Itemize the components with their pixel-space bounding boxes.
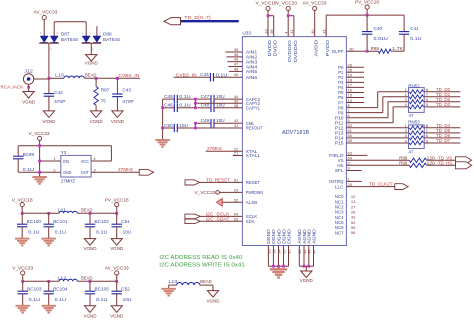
pin 48 AIN5 (left) [234, 66, 258, 74]
svg-text:TD_HS: TD_HS [438, 160, 452, 165]
svg-text:ADV7181B: ADV7181B [282, 130, 310, 136]
svg-text:VGND: VGND [110, 246, 124, 251]
pin 40 AVDD [310, 29, 319, 57]
svg-text:C46: C46 [164, 103, 173, 108]
pin 20 LLC [335, 182, 395, 190]
svg-text:BEAD: BEAD [81, 275, 92, 280]
svg-text:120: 120 [427, 160, 436, 165]
wire P3 stub [346, 81, 364, 83]
pin 11 DVDDIO [289, 29, 298, 62]
pin 62 P12 (right) [335, 123, 353, 131]
ground VGND under R87 [90, 111, 104, 124]
pin 47 AIN4 (left) [234, 62, 258, 70]
svg-text:0.1U: 0.1U [55, 297, 66, 302]
svg-text:51: 51 [234, 177, 239, 182]
svg-text:D88: D88 [103, 31, 112, 36]
pin 42 DGND [286, 229, 291, 266]
net label CVBS_IN (at C44) [176, 73, 197, 78]
svg-text:VGND: VGND [42, 119, 56, 124]
svg-text:BC99: BC99 [23, 152, 35, 157]
power symbol V_VCC33 (oscillator) [29, 131, 50, 177]
svg-text:D87: D87 [61, 31, 70, 36]
svg-text:VGND: VGND [22, 100, 36, 105]
svg-text:DVDDIO: DVDDIO [293, 40, 298, 63]
pin 12 NC0 [335, 194, 356, 199]
svg-text:BAT54S: BAT54S [61, 37, 78, 42]
wire VCC33 rail [23, 280, 117, 282]
ground under DGND [270, 269, 287, 277]
capacitor C47 10U [195, 94, 242, 103]
svg-text:20: 20 [348, 182, 353, 187]
svg-text:C50: C50 [164, 123, 173, 128]
ground VGND under C43 [111, 111, 125, 124]
wire RESET [200, 181, 243, 183]
svg-text:10U: 10U [123, 297, 132, 302]
svg-text:0.01U: 0.01U [374, 36, 388, 41]
svg-text:C44: C44 [200, 72, 209, 77]
svg-text:BC103: BC103 [27, 286, 42, 291]
ground VGND under L13 right [207, 285, 221, 303]
wire AIN3 stub [227, 61, 242, 63]
svg-text:P15: P15 [335, 141, 344, 146]
pin 16 P5 (right) [338, 88, 353, 96]
off-page tag TD_VS [456, 157, 472, 164]
off-page tag TD_RESET [185, 177, 230, 185]
svg-text:V_VCC18: V_VCC18 [256, 0, 277, 5]
svg-text:470P: 470P [122, 99, 133, 104]
ground (earth) under cap bank [155, 140, 169, 147]
svg-text:AV_VCC33: AV_VCC33 [105, 266, 129, 271]
pin 34 DGND [276, 229, 281, 266]
wire P11 to RN52 [346, 107, 408, 123]
wire DVDD branch [267, 14, 274, 36]
svg-text:VGND: VGND [110, 313, 124, 318]
capacitor C44 0.1U (series) [174, 72, 243, 81]
bus TD_D(0..7) [181, 20, 239, 22]
power symbol AV_VCC33 (IC top) [303, 0, 327, 36]
wire P10 to RN52 [346, 102, 408, 118]
wire CAPY2 row [195, 102, 242, 104]
svg-text:0.1U: 0.1U [96, 297, 107, 302]
svg-text:VGND: VGND [85, 60, 99, 65]
pin numbers RN52 left [405, 87, 408, 107]
power symbol AV_VCC33 (top left) [34, 9, 58, 36]
ground VGND under BC105 [84, 306, 98, 319]
wire PWRDWN [219, 191, 242, 193]
svg-text:27MHZ: 27MHZ [61, 179, 76, 184]
svg-text:0.1U: 0.1U [179, 94, 190, 99]
svg-text:TD_CLK27: TD_CLK27 [369, 181, 393, 186]
svg-text:C41: C41 [410, 26, 419, 31]
inductor L12 BEAD [58, 275, 93, 281]
svg-text:10U: 10U [216, 103, 225, 108]
note I2C address text [159, 255, 245, 269]
wire TD_D7 [424, 138, 460, 143]
svg-text:470P: 470P [54, 99, 65, 104]
capacitor BC100 0.1U [17, 213, 42, 238]
pin 52 ALSB (left) [234, 197, 257, 205]
svg-text:RN52: RN52 [408, 83, 420, 88]
wire TD_D3 [424, 102, 460, 107]
wire J12 to node [34, 78, 49, 80]
svg-text:29: 29 [234, 187, 239, 192]
ground VGND under AGND [300, 271, 314, 283]
capacitor C45 0.1U [163, 94, 196, 103]
svg-text:BC102: BC102 [95, 219, 110, 224]
off-page tag I2C_SDAT [185, 217, 230, 224]
node dots cap bank [161, 98, 197, 130]
wire cap-bank left rail [162, 99, 164, 140]
svg-text:V_VCC33: V_VCC33 [195, 190, 216, 195]
pin 36 DVDD [269, 29, 278, 57]
wire AIN2 stub [226, 56, 242, 58]
svg-text:48: 48 [234, 66, 239, 71]
svg-text:SFL: SFL [335, 168, 344, 173]
ground under BC103 [16, 306, 30, 313]
svg-text:RCA JACK: RCA JACK [1, 84, 24, 89]
pin 64 VS [338, 156, 353, 164]
svg-text:TD_D3: TD_D3 [436, 102, 451, 107]
ground VGND under BC102 [84, 239, 98, 252]
pin 54 SCLK (left) [234, 211, 257, 219]
wire XTAL1 stub [233, 155, 243, 157]
pin 46 AIN3 (left) [234, 57, 258, 65]
wire DGND rail [268, 265, 288, 270]
diode D88 BAT54S [81, 31, 120, 54]
pin 41 AGND [302, 229, 307, 266]
capacitor BC103 0.1U [18, 281, 43, 306]
svg-text:R88: R88 [371, 46, 380, 51]
svg-text:C49: C49 [201, 118, 210, 123]
pin 53 SDA (left) [234, 216, 255, 224]
svg-text:DVDDIO: DVDDIO [287, 40, 292, 63]
pin 6 P10 (right) [335, 113, 351, 121]
svg-text:C47: C47 [201, 94, 210, 99]
svg-text:RESET: RESET [246, 180, 261, 185]
wire P7 stub [346, 102, 364, 104]
capacitor BC99 0.1U [13, 146, 35, 173]
wire oscillator EN row [40, 160, 61, 162]
wire ELPF [346, 50, 378, 53]
svg-text:DGND: DGND [286, 229, 291, 244]
svg-text:AVDD: AVDD [314, 39, 319, 56]
svg-text:V_VCC33: V_VCC33 [276, 0, 297, 5]
svg-text:BC105: BC105 [95, 286, 110, 291]
svg-text:U33: U33 [242, 31, 251, 36]
svg-text:VCC: VCC [81, 159, 89, 164]
svg-text:PV_VCC18: PV_VCC18 [105, 197, 129, 202]
wire Y3 VCC pin4 to rail [91, 146, 111, 161]
svg-text:OUT: OUT [81, 170, 90, 175]
off-page tag TD_HS [456, 162, 472, 169]
capacitor C46 0.1U [163, 103, 196, 112]
inductor L11 BEAD [58, 207, 93, 213]
svg-text:XTAL1: XTAL1 [246, 153, 261, 158]
pin 9 SFL [335, 166, 362, 174]
pin 28 NC3 [335, 209, 356, 214]
svg-text:0.1U: 0.1U [96, 230, 107, 235]
pin 35 AIN1 (left) [234, 47, 258, 55]
pin 17 P4 (right) [338, 83, 353, 91]
svg-text:V_VCC33: V_VCC33 [29, 131, 50, 136]
arrow ALSB (to gnd tag) [216, 198, 222, 206]
svg-text:BEAD: BEAD [200, 279, 211, 284]
pin 13 NC1 [335, 199, 356, 204]
svg-text:V_VCC18: V_VCC18 [12, 197, 33, 202]
svg-text:59: 59 [348, 138, 353, 143]
pin numbers Y3 [53, 156, 96, 172]
pin 26 P0 (right) [338, 62, 353, 70]
wire D88 pin2 stub [96, 26, 98, 36]
power symbol PV_VCC18 [105, 197, 129, 213]
svg-text:27MHz: 27MHz [118, 167, 134, 172]
svg-text:AIN5: AIN5 [246, 69, 258, 74]
wire diode top rail [54, 22, 86, 36]
svg-text:CVBS_IN: CVBS_IN [118, 73, 139, 78]
svg-text:TD_D7: TD_D7 [436, 138, 451, 143]
pin 49 AIN6 (left) [234, 72, 258, 80]
ground VGND under C42 [42, 111, 56, 124]
svg-text:10U: 10U [216, 94, 225, 99]
capacitor C51 10U [112, 213, 132, 238]
pin 47 AGND [311, 229, 316, 266]
off-page bus arrow [164, 18, 181, 25]
pin 36 AIN2 (left) [234, 52, 258, 60]
svg-text:41: 41 [234, 123, 239, 128]
pin 23 DVDD [263, 29, 272, 57]
svg-text:56: 56 [351, 230, 356, 235]
inductor L13 BEAD [169, 279, 214, 285]
ground under L13 left [162, 285, 176, 296]
svg-text:AGND: AGND [311, 229, 316, 244]
svg-text:NC7: NC7 [335, 230, 344, 235]
svg-text:Y3: Y3 [61, 150, 67, 155]
wire SDA [200, 220, 242, 222]
svg-text:VGND: VGND [300, 278, 314, 283]
pin 29 PWRDWN (left) [234, 187, 263, 195]
pin 22 XTAL (left) [234, 146, 258, 154]
wire TD_D2 [424, 97, 460, 102]
net label 27MHz (osc out) [118, 167, 134, 172]
svg-text:I2C ADDRESS READ IS 0x40: I2C ADDRESS READ IS 0x40 [159, 255, 243, 261]
oscillator U Y3 27MHZ [61, 150, 91, 183]
pin numbers RN53 left [405, 123, 408, 143]
wire P15 to RN53 [346, 142, 408, 144]
svg-text:36: 36 [269, 29, 274, 34]
pin 44 CAPC2 (left) [234, 94, 261, 102]
IC U33 ADV7181B [242, 31, 346, 246]
svg-text:0.1U: 0.1U [23, 167, 34, 172]
power symbol AV_VCC33 (row2) [105, 266, 129, 282]
capacitor BC104 0.1U [44, 281, 69, 306]
wire cap-bank mid vertical 2 [194, 123, 196, 128]
pin 2 HS [337, 161, 350, 169]
wire TD_D6 [424, 133, 460, 138]
wire P1 stub [346, 71, 364, 73]
wire P5 stub [346, 91, 364, 93]
net label CVBS_IN [118, 73, 139, 78]
wire P6 stub [346, 97, 364, 99]
svg-text:ELPF: ELPF [332, 49, 344, 54]
svg-text:53: 53 [234, 216, 239, 221]
svg-text:R90: R90 [399, 160, 408, 165]
svg-text:TD_D(0..7): TD_D(0..7) [184, 15, 211, 20]
svg-text:AV_VCC33: AV_VCC33 [34, 9, 58, 14]
svg-text:0.1U: 0.1U [28, 230, 39, 235]
wire oscillator gnd row [18, 171, 61, 173]
wire P12 to RN53 [346, 127, 408, 129]
wire cap-bank mid vertical [194, 99, 196, 108]
pin 32 AGND [297, 229, 302, 266]
pin 21 XTAL1 (left) [234, 151, 261, 159]
capacitor C43 470P [112, 78, 134, 111]
ground VGND under C52 [110, 306, 124, 319]
svg-text:BC101: BC101 [53, 219, 68, 224]
pin 4 DVDDIO [284, 31, 293, 63]
wire J12 ground stub [27, 84, 30, 91]
pin 1 INTRQ [329, 177, 361, 185]
wire AIN1 stub [226, 51, 243, 53]
capacitor C41 0.1U [399, 15, 422, 51]
wire TD_D0 [424, 87, 460, 92]
pin 27 NC2 [335, 204, 356, 209]
capacitor C42 470P [44, 78, 66, 111]
net label TD_CLK27 [369, 181, 393, 186]
svg-text:ALSB: ALSB [246, 200, 257, 205]
svg-text:AIN6: AIN6 [246, 75, 258, 80]
wire AGND rail [299, 265, 313, 271]
capacitor BC101 0.1U [44, 213, 69, 238]
svg-text:BEAD: BEAD [85, 73, 96, 78]
svg-text:C42: C42 [54, 90, 63, 95]
wire SCLK [200, 215, 242, 217]
svg-text:DVDD: DVDD [267, 39, 272, 56]
pin 39 CAPY2 (left) [234, 98, 261, 106]
wire AIN4 stub [228, 66, 242, 68]
capacitor BC102 0.1U [85, 213, 110, 238]
svg-text:AV_VCC33: AV_VCC33 [303, 0, 327, 5]
svg-text:TD_RESET: TD_RESET [206, 177, 230, 182]
pin 10 DGND [266, 229, 271, 266]
off-page tag TD_CLK27 [395, 184, 408, 190]
wire DVDDIO branch [287, 14, 294, 36]
svg-text:VGND: VGND [207, 298, 221, 303]
pin 33 NC4 [335, 215, 356, 220]
svg-text:C48: C48 [201, 103, 210, 108]
node dots VCC33 rail [21, 280, 118, 283]
svg-text:PVDD: PVDD [325, 39, 330, 56]
power symbol V_VCC18 (IC top) [256, 0, 277, 36]
ground under BC104 [42, 306, 56, 313]
svg-text:10U: 10U [179, 123, 188, 128]
wire P4 stub [346, 86, 364, 88]
off-page tag I2C_SCLK [185, 211, 231, 218]
svg-text:49: 49 [234, 72, 239, 77]
pin 8 P8 (right) [338, 103, 350, 111]
svg-text:1.7K: 1.7K [392, 46, 403, 51]
node dots VCC18 rail [21, 212, 118, 215]
wire PVDD to PV_VCC18 rail [326, 15, 404, 36]
power symbol PV_VCC18 (right) [355, 0, 379, 16]
wire oscillator VCC rail [18, 145, 111, 147]
svg-text:GND: GND [63, 170, 71, 175]
svg-text:RN53: RN53 [408, 119, 420, 124]
diode D87 BAT54S [39, 31, 78, 78]
capacitor C49 10U [195, 118, 242, 127]
pin 18 P3 (right) [338, 78, 353, 86]
svg-text:BC100: BC100 [27, 219, 42, 224]
capacitor C50 10U [163, 123, 243, 132]
svg-text:VGND: VGND [111, 119, 125, 124]
ground (earth) under oscillator node [32, 177, 46, 184]
ground under BC101 [42, 239, 56, 246]
capacitor BC105 0.1U [85, 281, 110, 306]
pin 5 P11 (right) [335, 118, 351, 126]
pin 60 P14 (right) [335, 133, 353, 141]
svg-text:75: 75 [101, 98, 106, 103]
pin 56 NC7 [335, 230, 356, 235]
svg-text:C52: C52 [121, 286, 130, 291]
svg-text:C40: C40 [374, 26, 383, 31]
svg-text:L12: L12 [58, 275, 67, 280]
pin 41 REFOUT (left) [234, 123, 263, 131]
power symbol V_VCC18 [12, 197, 33, 213]
svg-text:C45: C45 [164, 94, 173, 99]
svg-text:V_VCC33: V_VCC33 [12, 266, 33, 271]
svg-text:L13: L13 [169, 279, 178, 284]
resistor R90 120 TD_HS [346, 160, 455, 167]
svg-text:BC104: BC104 [53, 286, 68, 291]
wire P14 to RN53 [346, 137, 408, 139]
svg-text:PV_VCC18: PV_VCC18 [355, 0, 379, 5]
svg-text:EN: EN [63, 159, 69, 164]
svg-text:0.1U: 0.1U [179, 103, 190, 108]
node junction dots on CVBS line [48, 77, 119, 80]
pin numbers RN53 right [426, 123, 429, 143]
svg-text:C43: C43 [122, 88, 131, 93]
ground VGND under D88 [85, 55, 99, 66]
pin 25 P1 (right) [338, 67, 353, 75]
svg-text:BEAD: BEAD [81, 207, 92, 212]
pin numbers RN52 right [426, 87, 429, 107]
svg-text:DVDD: DVDD [273, 39, 278, 56]
ground VGND under J12 [22, 92, 36, 105]
svg-text:10U: 10U [216, 118, 225, 123]
wire AIN5 stub [229, 70, 242, 72]
resistor R87 75 [94, 78, 110, 111]
svg-text:27MHz: 27MHz [207, 146, 223, 151]
wire P8 to RN52 [346, 92, 408, 108]
svg-text:VGND: VGND [84, 313, 98, 318]
pin 59 P15 (right) [335, 138, 353, 146]
svg-text:R87: R87 [101, 88, 110, 93]
wire ALSB [222, 201, 242, 203]
pin 50 NC5 [335, 220, 356, 225]
net label 27MHz (xtal) [207, 146, 223, 151]
pin 19 P2 (right) [338, 73, 353, 81]
svg-text:L11: L11 [58, 207, 67, 212]
power symbol V_VCC33 (PWRDWN) [195, 190, 220, 195]
wire TD_D5 [424, 128, 460, 133]
wire P13 to RN53 [346, 132, 408, 134]
svg-text:52: 52 [234, 197, 239, 202]
svg-text:30: 30 [349, 46, 354, 51]
resistor R88 1.7K [371, 46, 404, 54]
wire Y3 OUT pin3 [91, 171, 139, 173]
pin 7 P9 (right) [338, 108, 350, 116]
svg-text:L10: L10 [55, 72, 64, 77]
capacitor C40 0.01U [362, 15, 388, 51]
